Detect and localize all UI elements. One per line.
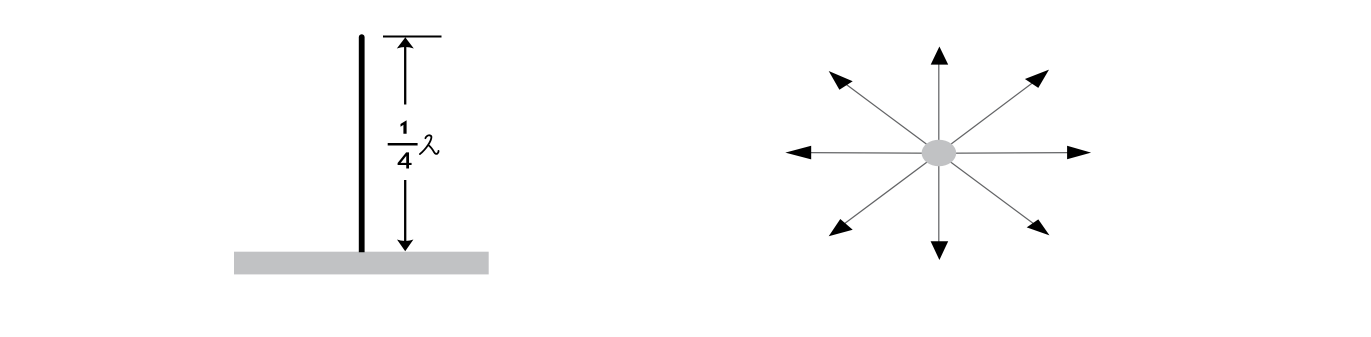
radiation arrowhead SE	[1027, 219, 1050, 235]
radiation arrow N wire	[938, 60, 940, 153]
radiation arrow SW wire	[844, 153, 939, 224]
radiation arrowhead NE	[1025, 70, 1049, 88]
dimension line lower	[404, 180, 406, 245]
radiation arrow W wire	[806, 152, 939, 155]
radiation arrowhead S	[931, 241, 949, 260]
isotropic source node	[922, 140, 957, 166]
antenna element	[359, 34, 365, 252]
radiation arrow E wire	[939, 152, 1072, 155]
radiation arrow S wire	[938, 153, 940, 246]
dimension arrowhead down	[397, 240, 413, 252]
radiation arrowhead E	[1067, 146, 1091, 160]
radiation arrowhead NW	[829, 71, 853, 90]
dimension line upper	[404, 45, 406, 105]
label fraction numerator 1	[401, 120, 407, 134]
label fraction denominator 4	[398, 153, 411, 169]
ground plane	[234, 252, 489, 275]
radiation arrowhead W	[785, 146, 811, 160]
radiation arrow NE wire	[939, 81, 1035, 153]
fraction bar	[388, 143, 418, 146]
radiation arrowhead SW	[829, 219, 853, 236]
dimension arrowhead up	[397, 37, 414, 48]
dimension tick	[383, 35, 442, 37]
radiation arrow NW wire	[843, 82, 939, 153]
radiation arrowhead N	[931, 47, 949, 65]
label lambda	[420, 135, 439, 154]
radiation arrow SE wire	[939, 153, 1034, 224]
